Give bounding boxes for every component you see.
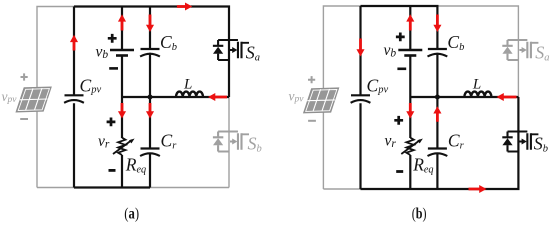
svg-text:Sb: Sb <box>534 134 548 155</box>
svg-text:vpv: vpv <box>2 89 18 105</box>
svg-text:vb: vb <box>96 44 109 62</box>
svg-text:L: L <box>472 76 481 92</box>
svg-text:vb: vb <box>384 42 397 60</box>
svg-text:Req: Req <box>412 155 433 176</box>
svg-text:Req: Req <box>125 155 146 176</box>
svg-text:vpv: vpv <box>289 89 305 105</box>
svg-text:Sa: Sa <box>535 43 549 64</box>
svg-text:Cr: Cr <box>448 131 465 152</box>
svg-text:vr: vr <box>98 133 110 151</box>
svg-text:Sa: Sa <box>246 43 260 64</box>
svg-text:Cpv: Cpv <box>80 76 102 96</box>
svg-text:Cr: Cr <box>161 131 178 152</box>
svg-text:vr: vr <box>385 133 397 151</box>
svg-text:(b): (b) <box>412 206 427 223</box>
svg-text:Cb: Cb <box>160 32 177 53</box>
svg-text:Cb: Cb <box>447 32 464 53</box>
svg-text:(a): (a) <box>124 206 139 223</box>
svg-text:L: L <box>183 76 192 92</box>
svg-text:Sb: Sb <box>248 134 262 155</box>
svg-text:Cpv: Cpv <box>367 76 389 96</box>
